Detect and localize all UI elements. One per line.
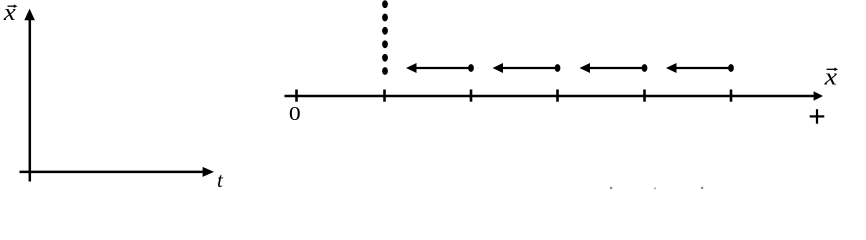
svg-text:x: x bbox=[824, 63, 838, 90]
svg-text:t: t bbox=[217, 168, 224, 189]
svg-text:x: x bbox=[3, 0, 17, 26]
svg-text:0: 0 bbox=[289, 103, 301, 125]
